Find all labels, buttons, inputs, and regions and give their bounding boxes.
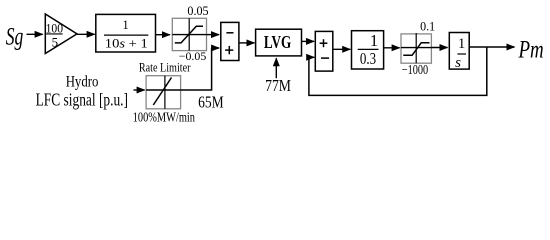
LVG block	[256, 29, 302, 56]
svg-text:100: 100	[46, 20, 63, 35]
svg-text:Sg: Sg	[6, 23, 24, 50]
summing block 1	[221, 22, 239, 60]
svg-text:1: 1	[458, 36, 465, 52]
wire saturation 2 to integrator	[431, 47, 447, 49]
saturation 2 vertical axis	[415, 33, 417, 63]
wire saturation 1 to sum 1	[207, 34, 220, 36]
wire triangle to transfer block	[77, 33, 95, 35]
svg-text:LVG: LVG	[264, 32, 291, 52]
svg-text:5: 5	[52, 34, 59, 49]
wire rate limiter to sum 1 (65M path)	[181, 48, 212, 90]
svg-text:1: 1	[123, 18, 129, 32]
saturation 1 curve	[175, 26, 203, 43]
saturation 2 horizontal axis wire	[401, 47, 431, 49]
sum 1 plus sign	[225, 49, 233, 51]
wire sum 2 to 1/0.3 block	[333, 48, 350, 50]
svg-text:1: 1	[370, 31, 378, 50]
wire Sg to gain triangle	[27, 33, 43, 35]
gain block 1/0.3	[352, 31, 384, 69]
svg-text:100%MW/min: 100%MW/min	[133, 110, 195, 125]
sum 2 minus sign	[321, 57, 329, 59]
svg-text:77M: 77M	[265, 76, 291, 95]
saturation 1 vertical axis	[188, 18, 190, 50]
feedback branch junction wire	[309, 47, 487, 95]
77M arrow into LVG	[275, 58, 277, 78]
saturation block 1 (gray box)	[172, 18, 206, 50]
saturation 1 horizontal axis wire	[172, 34, 206, 36]
saturation block 2 (gray box)	[401, 34, 431, 63]
rate limiter vertical axis	[164, 76, 166, 109]
wire integrator to Pm output	[469, 46, 514, 48]
svg-text:s: s	[455, 55, 461, 71]
sum 1 minus sign	[226, 32, 233, 34]
gain block (triangle)	[45, 14, 77, 54]
svg-text:Pm: Pm	[518, 34, 544, 63]
wire 1/0.3 to saturation 2	[384, 47, 400, 49]
svg-text:LFC signal [p.u.]: LFC signal [p.u.]	[36, 90, 128, 110]
rate limiter block (gray box)	[146, 76, 181, 109]
svg-text:−1000: −1000	[402, 62, 429, 77]
svg-text:0.1: 0.1	[420, 19, 435, 34]
svg-text:Hydro: Hydro	[66, 73, 99, 90]
saturation 2 curve	[403, 43, 429, 56]
svg-text:0.05: 0.05	[187, 4, 208, 18]
wire LFC signal to rate limiter	[134, 89, 145, 91]
wire sum 1 to LVG	[239, 42, 255, 44]
wire block to saturation 1	[156, 34, 170, 36]
rate limiter horizontal axis wire	[146, 89, 181, 91]
svg-text:Rate Limiter: Rate Limiter	[139, 60, 191, 74]
svg-text:0.3: 0.3	[360, 49, 376, 68]
rate limiter slope line	[153, 78, 171, 106]
wire LVG to sum 2	[302, 40, 315, 42]
sum 2 plus sign	[320, 42, 328, 44]
summing block 2	[315, 31, 333, 71]
transfer function block 1/(10s+1)	[96, 14, 156, 52]
svg-text:10s + 1: 10s + 1	[105, 37, 148, 51]
svg-text:65M: 65M	[198, 92, 224, 111]
integrator block 1/s	[449, 33, 469, 70]
feedback arrow into sum 2	[308, 56, 314, 58]
